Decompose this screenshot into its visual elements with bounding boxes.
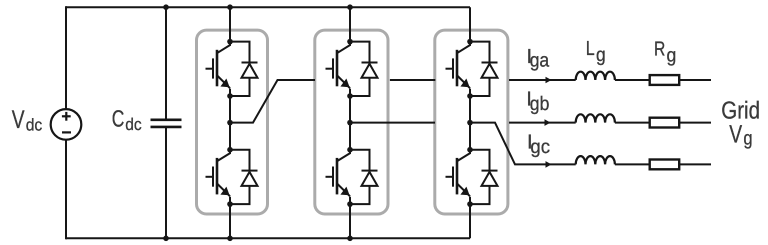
node: leg1 collector junction lower bbox=[227, 147, 233, 153]
node: leg2 emitter junction upper bbox=[347, 93, 353, 99]
node: leg1 emitter junction lower bbox=[227, 201, 233, 207]
diode D5 (leg3 upper freewheel) bbox=[470, 42, 498, 96]
wire: leg 1 vertical segments bbox=[229, 7, 231, 238]
node: top rail junction at leg2 bbox=[347, 4, 353, 10]
wire: leg 3 vertical segments bbox=[469, 7, 471, 238]
node: leg2 emitter junction lower bbox=[347, 201, 353, 207]
wire: phase c output from leg 3 midpoint with diagonal drop bbox=[470, 123, 711, 165]
svg-text:ga: ga bbox=[530, 50, 550, 72]
wire: phase a line to grid bbox=[509, 79, 711, 81]
leg module box 3 (grey rounded rectangle) bbox=[435, 30, 508, 214]
transistor Q3 (leg2 upper IGBT) bbox=[326, 45, 351, 88]
current arrow Igb bbox=[545, 119, 551, 126]
inductor Lg phase a bbox=[576, 72, 615, 80]
node: leg2 collector junction upper bbox=[347, 39, 353, 45]
transistor Q6 (leg3 lower IGBT) bbox=[446, 153, 471, 196]
svg-text:dc: dc bbox=[26, 115, 43, 134]
transistor Q4 (leg2 lower IGBT) bbox=[326, 153, 351, 196]
current arrow Igc bbox=[546, 161, 552, 168]
svg-text:V: V bbox=[12, 106, 25, 134]
node: leg1 collector junction upper bbox=[227, 39, 233, 45]
node: leg2 phase midpoint bbox=[347, 120, 353, 126]
wire: phase b output from leg 2 midpoint bbox=[350, 122, 435, 124]
node: bottom rail junction at leg1 bbox=[227, 236, 233, 242]
wire: Cdc capacitor vertical bottom bbox=[165, 127, 167, 238]
Vdc DC voltage source circle bbox=[51, 109, 82, 140]
capacitor Cdc plates bbox=[151, 120, 182, 127]
resistor Rg phase b bbox=[650, 118, 680, 128]
current arrow Iga bbox=[546, 77, 552, 84]
svg-text:L: L bbox=[586, 38, 595, 60]
diode D1 (leg1 upper freewheel) bbox=[230, 42, 258, 96]
leg module box 1 (grey rounded rectangle) bbox=[197, 30, 268, 214]
transistor Q5 (leg3 upper IGBT) bbox=[446, 45, 471, 88]
node: leg3 emitter junction upper bbox=[467, 93, 473, 99]
node: leg3 phase midpoint bbox=[467, 120, 473, 126]
node: leg1 phase midpoint bbox=[227, 120, 233, 126]
node: bottom rail junction at Cdc bbox=[163, 236, 169, 242]
node: leg3 collector junction upper bbox=[467, 39, 473, 45]
wire: Cdc capacitor vertical top bbox=[165, 7, 167, 119]
leg module box 2 (grey rounded rectangle) bbox=[315, 30, 388, 214]
svg-text:R: R bbox=[654, 38, 665, 60]
node: leg2 collector junction lower bbox=[347, 147, 353, 153]
node: leg1 emitter junction upper bbox=[227, 93, 233, 99]
wire: leg 2 vertical segments bbox=[349, 7, 351, 238]
wire: phase b line to grid bbox=[509, 122, 711, 124]
inductor Lg phase b bbox=[576, 114, 615, 122]
wire: phase a segment between box 2 and box 3 bbox=[390, 79, 435, 81]
wire: Vdc source vertical bottom bbox=[65, 140, 67, 240]
svg-text:V: V bbox=[729, 121, 742, 149]
diode D6 (leg3 lower freewheel) bbox=[470, 150, 498, 204]
wire: top DC rail bbox=[66, 6, 470, 8]
resistor Rg phase c bbox=[650, 160, 680, 170]
diode D2 (leg1 lower freewheel) bbox=[230, 150, 258, 204]
svg-text:gc: gc bbox=[530, 136, 550, 158]
svg-text:dc: dc bbox=[125, 115, 142, 134]
svg-text:g: g bbox=[743, 128, 752, 150]
resistor Rg phase a bbox=[650, 75, 680, 85]
wire: Vdc source vertical top bbox=[65, 6, 67, 109]
node: top rail junction at leg1 bbox=[227, 4, 233, 10]
transistor Q1 (leg1 upper IGBT) bbox=[206, 45, 231, 88]
wire: phase a output from leg 1 midpoint with diagonal rise bbox=[230, 80, 315, 123]
svg-text:gb: gb bbox=[530, 93, 550, 115]
node: bottom rail junction at leg2 bbox=[347, 236, 353, 242]
transistor Q2 (leg1 lower IGBT) bbox=[206, 153, 231, 196]
node: top rail junction at Cdc bbox=[163, 4, 169, 10]
inductor Lg phase c bbox=[576, 156, 615, 164]
svg-text:g: g bbox=[596, 44, 606, 66]
wire: bottom DC rail bbox=[66, 237, 470, 239]
node: leg3 collector junction lower bbox=[467, 147, 473, 153]
svg-text:C: C bbox=[112, 105, 125, 131]
diode D3 (leg2 upper freewheel) bbox=[350, 42, 378, 96]
svg-text:g: g bbox=[667, 45, 677, 67]
node: leg3 emitter junction lower bbox=[467, 201, 473, 207]
diode D4 (leg2 lower freewheel) bbox=[350, 150, 378, 204]
